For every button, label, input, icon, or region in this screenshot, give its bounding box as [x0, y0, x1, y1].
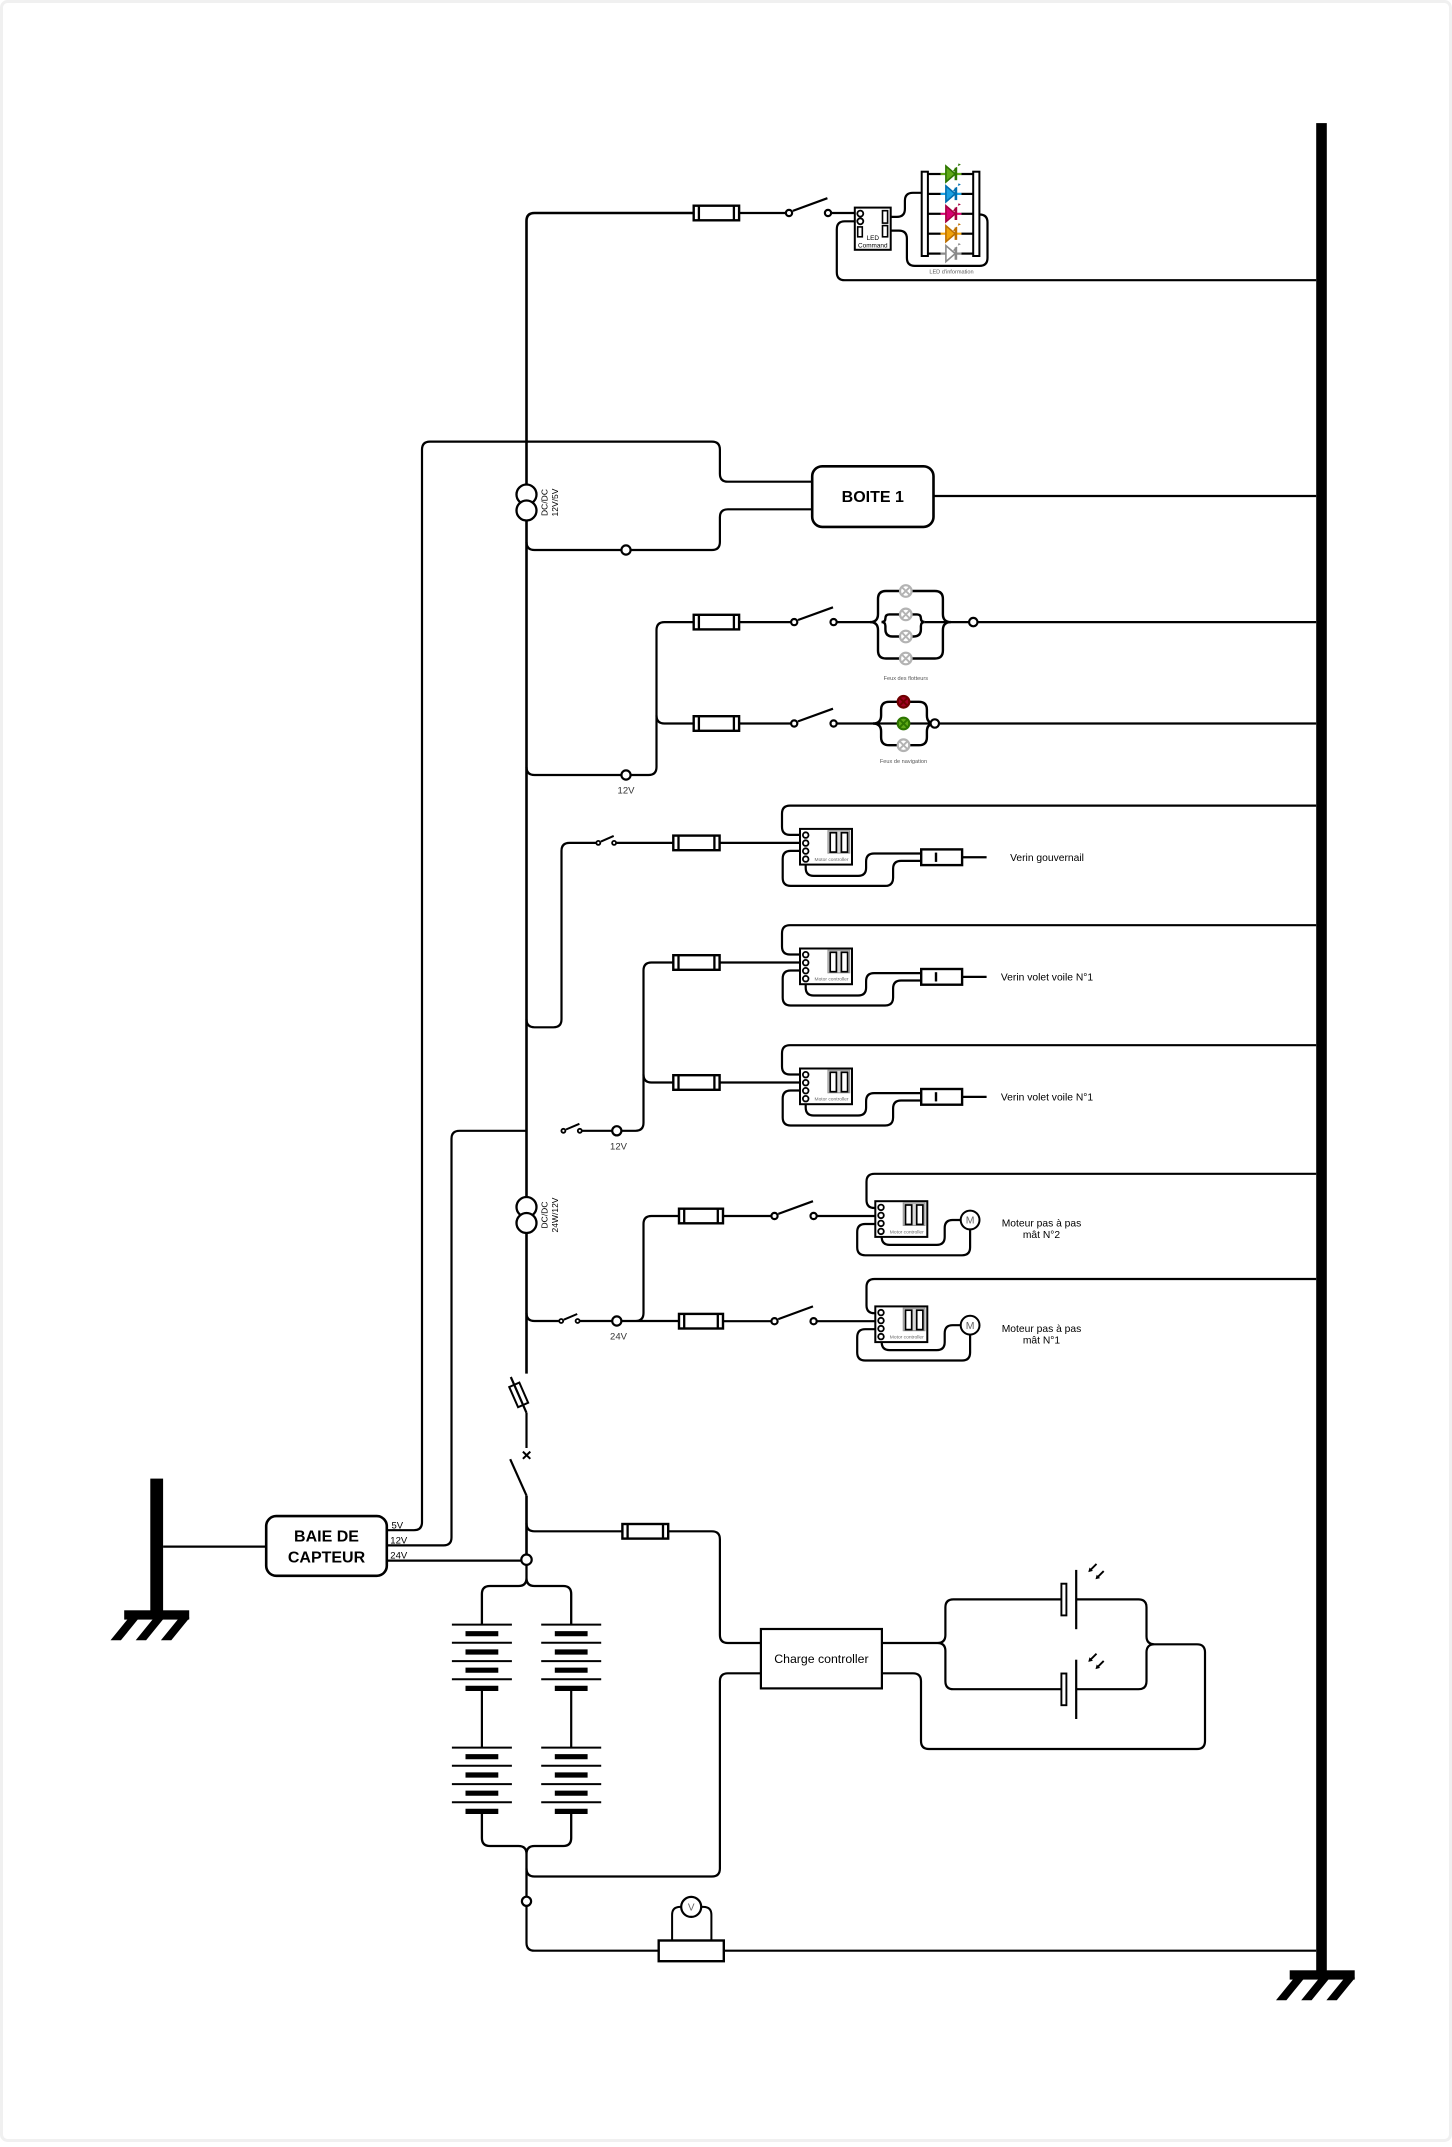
wire F8 to switch	[723, 1215, 771, 1217]
wire lamps to bus	[925, 621, 1316, 623]
rung for LED D2 (blue)	[928, 193, 973, 195]
battery B2	[541, 1625, 601, 1689]
wire battery minus to charge controller	[527, 1673, 761, 1876]
stepper motor controller U8	[875, 1201, 927, 1237]
wire S3 to lamp group	[837, 722, 935, 724]
switch S7 (12V rail)	[561, 1124, 581, 1133]
bracket feux de navigation	[873, 702, 935, 745]
fuse F2 (feux des flotteurs)	[694, 615, 739, 630]
svg-text:mât N°1: mât N°1	[1023, 1335, 1061, 1346]
node connector 12V lamps	[621, 770, 630, 779]
node connector (12V wire)	[621, 545, 630, 554]
svg-text:mât N°2: mât N°2	[1023, 1230, 1061, 1241]
main battery switch blade	[510, 1459, 526, 1495]
box Charge controller U10	[761, 1629, 882, 1688]
switch S9 (stepper 1)	[771, 1201, 816, 1219]
LED D5 (gray)	[941, 243, 962, 262]
wire branch to verin3 fuse	[644, 1075, 674, 1083]
lamp L2 (flotteur)	[900, 609, 912, 621]
LED D1 (green)	[941, 163, 962, 182]
box BOITE 1	[812, 466, 933, 527]
wire switch to fuse F4	[616, 842, 673, 844]
rung for LED D5 (gray)	[928, 253, 973, 255]
wire F4 to motor controller	[720, 842, 800, 844]
svg-text:CAPTEUR: CAPTEUR	[288, 1550, 366, 1567]
svg-text:Command: Command	[858, 243, 888, 250]
wire controller 2 pin1 to bus (return)	[782, 925, 1316, 954]
svg-text:Charge controller: Charge controller	[774, 1652, 868, 1666]
wire battery split top	[482, 1565, 571, 1625]
wire S7 to node	[582, 1130, 612, 1132]
node connector (flotteurs out)	[969, 618, 977, 626]
wire branch to feux de navigation fuse	[657, 716, 694, 724]
svg-text:Motor controller: Motor controller	[815, 1097, 849, 1103]
fuse F10 (charge line)	[622, 1524, 668, 1539]
ground (left earth)	[111, 1479, 190, 1641]
wire 12V to BOITE 1 lower pin	[527, 509, 813, 550]
linear actuator A1	[921, 849, 986, 865]
wire navigation to bus	[930, 722, 1316, 724]
fuse F1 (LED circuit)	[694, 206, 739, 221]
svg-text:V: V	[688, 1903, 695, 1914]
svg-text:M: M	[966, 1320, 975, 1332]
svg-text:LED d'information: LED d'information	[929, 269, 973, 275]
LED D3 (magenta)	[941, 203, 962, 222]
wire F10 to charge controller	[668, 1531, 761, 1643]
inner bracket feux des flotteurs	[882, 614, 925, 636]
node connector 12V verins	[612, 1126, 621, 1135]
wire 12V branch to lamp circuits	[527, 767, 622, 775]
wire batteries series right	[570, 1689, 572, 1748]
wire 5V rail	[387, 442, 527, 1531]
box BAIE DE CAPTEUR	[266, 1516, 387, 1576]
wire main junction to DC/DC 12V-5V	[525, 442, 528, 485]
fuse F8 (stepper 1)	[679, 1209, 723, 1224]
wire shunt to bus	[724, 1950, 1316, 1952]
wire controller 3 pin4 to actuator	[806, 1093, 922, 1115]
wire stepper controller 1 pin3 to motor	[857, 1224, 970, 1255]
wire main 24V trunk	[525, 1232, 528, 1373]
solar panel PV2	[1061, 1654, 1103, 1719]
voltmeter bracket	[672, 1907, 711, 1941]
svg-text:12V: 12V	[618, 786, 636, 797]
wire controller 2 pin4 to actuator	[806, 973, 922, 995]
wire junction to BOITE 1 upper pin	[527, 442, 813, 482]
wire 24V node to stepper fuses	[621, 1216, 679, 1321]
wire solar panels return loop	[882, 1599, 1205, 1749]
wire F9 to switch	[723, 1320, 771, 1322]
switch S1 (LED circuit)	[786, 198, 831, 216]
switch S2 (feux des flotteurs)	[791, 607, 837, 625]
fuse F5 (verin 2)	[673, 955, 719, 970]
fuse F6 (verin 3)	[673, 1075, 719, 1090]
node connector 24V steppers	[612, 1316, 621, 1325]
svg-text:M: M	[966, 1215, 975, 1227]
fuse F9 (stepper 2)	[679, 1314, 723, 1329]
wire switch to controller 2	[817, 1320, 876, 1322]
wire controller 3 pin3 to actuator	[783, 1091, 922, 1126]
rung for LED D4 (orange)	[928, 233, 973, 235]
wire 24V node to bottom fuse	[527, 1523, 623, 1531]
motor controller U5 (verin 2)	[800, 949, 852, 985]
wire lamp feed riser	[631, 622, 694, 775]
wire controller 1 pin1 to bus (return)	[782, 806, 1316, 835]
shunt resistor R1	[659, 1941, 724, 1962]
svg-text:24V: 24V	[610, 1332, 628, 1343]
svg-text:DC/DC: DC/DC	[540, 1202, 550, 1229]
fuse-disconnector F7 (battery main)	[509, 1377, 528, 1413]
node connector battery minus	[522, 1897, 531, 1906]
node connector (navigation out)	[931, 719, 939, 727]
box LED Command U3	[855, 208, 891, 250]
wire BOITE 1 to bus	[934, 495, 1317, 497]
wire 12V rail	[387, 1131, 527, 1546]
svg-text:LED: LED	[867, 235, 880, 242]
svg-text:Motor controller: Motor controller	[815, 977, 849, 983]
wire controller 1 pin4 to actuator	[806, 854, 922, 876]
LED D4 (orange)	[941, 223, 962, 242]
wire stepper controller 2 pin4 to motor	[882, 1325, 961, 1350]
switch S3 (feux de navigation)	[791, 709, 837, 727]
stepper motor controller U9	[875, 1306, 927, 1342]
wire 12V branch to verin1 switch	[527, 843, 597, 1027]
linear actuator A2	[921, 969, 986, 985]
lamp L6 (green navigation)	[898, 718, 910, 730]
svg-text:12V: 12V	[610, 1142, 628, 1153]
svg-text:Motor controller: Motor controller	[815, 857, 849, 863]
DC/DC converter U1 12V/5V	[517, 485, 537, 521]
wire 12V node riser to verin fuses	[621, 963, 673, 1131]
wire U3 return to bus	[837, 221, 1316, 280]
rung for LED D3 (magenta)	[928, 213, 973, 215]
battery B4	[541, 1748, 601, 1812]
motor controller U4 (verin 1)	[800, 829, 852, 865]
lamp L3 (flotteur)	[900, 631, 912, 643]
switch S10 (stepper 2)	[771, 1306, 816, 1324]
label Moteur pas &#224; pas m&#226;t N&#176;1	[1002, 1324, 1082, 1347]
linear actuator A3	[921, 1089, 986, 1105]
lamp L7 (white navigation)	[898, 739, 910, 751]
lamp L5 (red navigation)	[898, 696, 910, 708]
LED D2 (blue)	[941, 183, 962, 202]
wire stepper controller 1 pin4 to motor	[882, 1220, 961, 1245]
wire ground to BAIE DE CAPTEUR	[163, 1545, 266, 1547]
wire below fuse-disconnector	[525, 1413, 527, 1448]
lamp L1 (flotteur)	[900, 585, 912, 597]
rung for LED D1 (green)	[928, 173, 973, 175]
svg-text:24W/12V: 24W/12V	[550, 1197, 560, 1232]
fuse F4 (verin 1)	[673, 836, 719, 851]
svg-text:BOITE 1: BOITE 1	[842, 489, 904, 506]
svg-text:Feux des flotteurs: Feux des flotteurs	[884, 676, 929, 682]
wire F5 to motor controller	[720, 961, 800, 963]
svg-text:Moteur pas à pas: Moteur pas à pas	[1002, 1324, 1082, 1335]
stepper motor M1	[961, 1211, 980, 1230]
wire controller 2 pin3 to actuator	[783, 971, 922, 1006]
LED ladder right rail	[973, 172, 979, 256]
svg-text:Motor controller: Motor controller	[890, 1229, 924, 1235]
svg-text:Motor controller: Motor controller	[890, 1335, 924, 1341]
svg-text:Verin volet voile N°1: Verin volet voile N°1	[1001, 973, 1094, 984]
wire battery merge bottom	[482, 1811, 571, 1896]
svg-text:Feux de navigation: Feux de navigation	[880, 759, 927, 765]
wire F6 to motor controller	[720, 1081, 800, 1083]
voltmeter V1	[681, 1897, 701, 1917]
wire S2 to lamp group	[837, 621, 873, 623]
wire controller 1 pin3 to actuator	[783, 851, 922, 886]
lamp L4 (flotteur)	[900, 653, 912, 665]
stepper motor M2	[961, 1316, 980, 1335]
wire F2 to switch S2	[739, 621, 791, 623]
wire switch to controller 1	[817, 1215, 876, 1217]
svg-text:DC/DC: DC/DC	[540, 489, 550, 516]
wire U3 to LED ladder anode rail	[891, 193, 922, 217]
wire S1 to LED Command	[831, 212, 855, 214]
LED ladder left rail	[922, 172, 928, 256]
wire switch to 24V node	[525, 1496, 528, 1556]
label U2	[540, 1197, 561, 1232]
outer bracket feux des flotteurs	[870, 591, 951, 659]
fuse F3 (feux de navigation)	[694, 716, 739, 731]
solar panel PV1	[1061, 1564, 1103, 1629]
svg-text:Moteur pas à pas: Moteur pas à pas	[1002, 1219, 1082, 1230]
wire U3 to LED ladder cathode rail	[891, 215, 988, 266]
label U1	[540, 488, 561, 516]
switch S8 (24V rail)	[559, 1314, 579, 1323]
contact mark x	[523, 1452, 530, 1459]
motor controller U6 (verin 3)	[800, 1069, 852, 1105]
wire stepper controller 1 pin1 to bus (return)	[867, 1174, 1317, 1208]
svg-text:12V/5V: 12V/5V	[550, 488, 560, 516]
battery B1	[452, 1625, 512, 1689]
label Moteur pas &#224; pas m&#226;t N&#176;2	[1002, 1219, 1082, 1242]
DC/DC converter U2 24W/12V	[517, 1197, 537, 1233]
wire stepper controller 2 pin1 to bus (return)	[867, 1279, 1317, 1313]
ground (bus bottom)	[1276, 1970, 1355, 2000]
battery B3	[452, 1748, 512, 1812]
wire S8 to node	[580, 1320, 613, 1322]
svg-text:Verin gouvernail: Verin gouvernail	[1010, 853, 1084, 864]
wire charge controller to solar panels plus	[882, 1599, 1062, 1689]
wire main 5V junction to LED feed	[527, 213, 694, 442]
wire 24V branch from main	[527, 1313, 560, 1321]
wire F3 to switch S3	[739, 722, 791, 724]
wire controller 3 pin1 to bus (return)	[782, 1045, 1316, 1074]
ground bus bar	[1316, 123, 1327, 1971]
svg-text:Verin volet voile N°1: Verin volet voile N°1	[1001, 1093, 1094, 1104]
wire 24V to node	[387, 1559, 527, 1561]
node connector 24V main	[521, 1555, 531, 1565]
svg-text:BAIE DE: BAIE DE	[294, 1529, 359, 1546]
wire batteries series left	[481, 1689, 483, 1748]
wire F1 to switch S1	[739, 212, 786, 214]
switch S4 (verin 1)	[596, 836, 616, 845]
wire main 12V trunk	[525, 520, 528, 1197]
wire battery minus to shunt	[527, 1906, 659, 1951]
wire stepper controller 2 pin3 to motor	[857, 1329, 970, 1360]
